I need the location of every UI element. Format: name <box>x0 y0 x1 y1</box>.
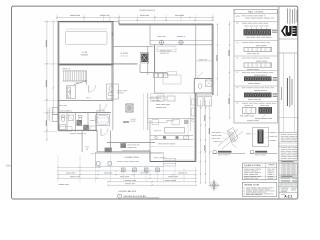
wall legend panel box <box>234 9 278 123</box>
powder room fixtures <box>107 84 119 99</box>
svg-text:GENERAL NOTES: GENERAL NOTES <box>244 184 260 187</box>
fireplace dark insert <box>120 143 126 148</box>
bottom right wing bottom wall <box>149 151 151 162</box>
revision table header <box>279 159 298 161</box>
left bottom dimension stub <box>58 166 100 168</box>
vanity counter with twin sinks <box>150 39 213 41</box>
hall door arc <box>88 85 90 92</box>
kitchen upper appliance row <box>152 120 159 125</box>
bath fixtures toilets sinks tub <box>62 117 65 121</box>
issue rows <box>281 177 291 180</box>
firm logo <box>281 26 297 37</box>
architect info vertical text <box>286 9 289 24</box>
garage exterior walls <box>58 22 113 65</box>
right exterior wall <box>212 24 214 95</box>
svg-text:ROOM: ROOM <box>131 121 136 123</box>
dimension extension stubs bottom <box>57 167 59 182</box>
stair right edge <box>86 71 88 85</box>
center room walls <box>112 101 114 131</box>
door detail caption <box>250 150 254 154</box>
interior wall below garage <box>58 100 113 102</box>
fold mark left edge <box>6 164 11 166</box>
right dimension string upper <box>217 24 219 95</box>
closet shelving <box>157 47 176 52</box>
porch slab outline <box>95 152 163 166</box>
drawing title bubble <box>118 194 122 198</box>
hall walls lower <box>81 130 83 152</box>
garage door recess <box>66 32 108 45</box>
project text column borders <box>282 53 284 133</box>
title block divider <box>279 38 298 40</box>
title block left border <box>278 6 280 199</box>
iso detail leader labels <box>212 131 216 134</box>
svg-text:LIVING: LIVING <box>130 119 136 121</box>
project name vertical text <box>287 78 288 106</box>
closet dark fixture <box>141 54 148 63</box>
stair direction arrow <box>74 81 86 85</box>
media dark cabinet <box>105 148 112 153</box>
secondary top dimension line <box>119 19 213 21</box>
sheet border frame <box>12 6 298 199</box>
garage right wall lower <box>112 65 114 101</box>
door jamb sub-detail <box>253 128 269 147</box>
bath bottom right <box>194 79 213 94</box>
porch columns row <box>121 168 125 172</box>
kitchen sink and range <box>155 136 158 139</box>
issue header bar <box>279 174 298 176</box>
note text block 1 <box>281 133 286 136</box>
appliance dark rect <box>126 104 133 112</box>
revision table grid <box>281 163 283 175</box>
svg-text:FLEX: FLEX <box>85 147 89 149</box>
porch small posts <box>97 162 100 165</box>
exterior wall inner faces <box>119 25 212 27</box>
main top exterior wall <box>113 21 119 23</box>
general notes box <box>242 182 276 196</box>
wall between bedroom and bath <box>154 45 156 73</box>
kitchen right counter <box>190 95 192 131</box>
svg-text:BED 2: BED 2 <box>86 98 91 100</box>
kitchen right wing walls <box>195 93 197 162</box>
bedroom furniture rects <box>163 75 181 84</box>
staircase <box>62 70 86 72</box>
svg-text:A-2.1: A-2.1 <box>284 195 292 199</box>
left dimension line inner <box>52 21 54 113</box>
living room door arc <box>100 129 102 136</box>
left wing bottom wall <box>58 129 97 131</box>
great room label <box>150 97 155 100</box>
svg-text:M. BDRM: M. BDRM <box>121 53 129 55</box>
top dimension line <box>57 17 213 19</box>
bath dark tile masses <box>77 120 83 126</box>
right wing interior <box>196 94 213 96</box>
dimension string between plan and legend <box>229 21 231 118</box>
exterior steps right of porch <box>164 158 176 160</box>
svg-text:GARAGE: GARAGE <box>81 54 89 57</box>
svg-text:COVERED PORCH: COVERED PORCH <box>124 157 140 159</box>
kitchen mid dim line <box>143 93 145 130</box>
note text block 2 <box>281 146 287 149</box>
bottom dimension tier 1 <box>58 174 196 176</box>
wall legend title box <box>234 9 278 13</box>
long interior wall <box>58 63 137 65</box>
pantry shelf rows <box>151 94 164 102</box>
bottom dimension tier 2 <box>58 177 196 179</box>
hall wall <box>139 64 141 73</box>
right bedroom wall upper <box>195 24 197 78</box>
bottom center wall <box>97 151 150 153</box>
extra room annotation specks <box>160 50 166 53</box>
right dimension strings lower <box>200 100 202 183</box>
title block divider mid <box>279 116 298 118</box>
dimension extension stubs top <box>56 15 58 22</box>
bath floor tile lines <box>59 117 67 119</box>
fireplace wall <box>107 141 155 143</box>
kitchen counters <box>150 135 193 137</box>
bath cluster dividing wall <box>58 112 111 114</box>
iso detail caption <box>213 150 217 154</box>
bottom dimension tier 3 <box>108 181 196 183</box>
svg-text:GROUND FLOOR PLAN: GROUND FLOOR PLAN <box>123 195 146 198</box>
seal box divider <box>279 52 298 54</box>
left exterior wall lower <box>57 65 59 131</box>
bench cabinets row <box>154 73 158 78</box>
door swing bath <box>197 72 204 79</box>
interior wall mid <box>113 45 153 47</box>
svg-text:SQUARE FOOTAGE: SQUARE FOOTAGE <box>244 164 262 167</box>
svg-text:WALL LEGEND: WALL LEGEND <box>248 11 264 14</box>
north arrow compass <box>208 179 220 191</box>
iso wall detail sketch <box>218 128 243 150</box>
left dimension line outer <box>46 21 48 140</box>
bottom dimension tier 0 <box>58 170 196 172</box>
signature boxes <box>280 183 285 186</box>
kitchen extra counter lines <box>150 146 193 148</box>
svg-text:NOTE:: NOTE: <box>236 16 241 18</box>
bottom dimension tier 4 <box>108 184 196 186</box>
kitchen island <box>165 128 185 134</box>
svg-text:15-0 x 14-2: 15-0 x 14-2 <box>121 55 128 57</box>
svg-text:LEISURE LANE SIDE: LEISURE LANE SIDE <box>119 190 137 193</box>
drawn date rows <box>281 187 289 190</box>
closet under stairs with bifold doors <box>67 86 76 99</box>
bedroom2 door arc <box>99 104 101 111</box>
square footage table <box>242 163 276 180</box>
door detail leaders <box>270 131 276 134</box>
svg-text:1: 1 <box>119 196 120 198</box>
left stoop steps <box>52 108 58 115</box>
upper kitchen wall lines <box>147 93 149 130</box>
dimension extension stubs left <box>44 21 58 23</box>
stair UP label <box>76 82 82 85</box>
